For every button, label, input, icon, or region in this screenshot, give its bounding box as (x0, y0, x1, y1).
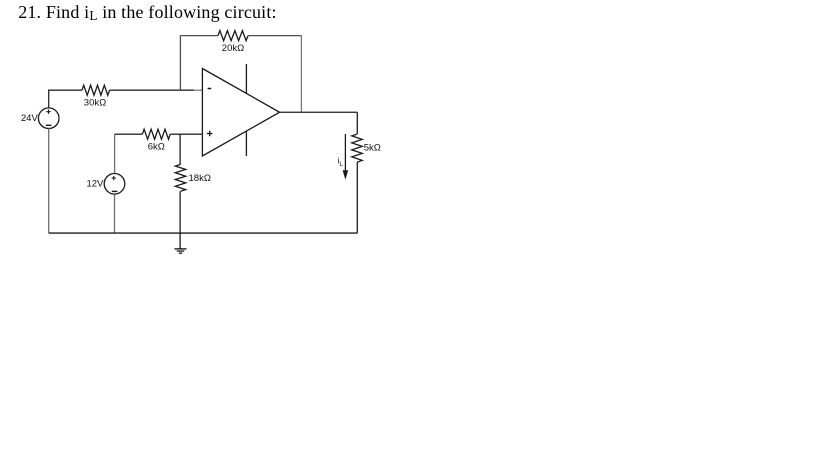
12V plus sign (112, 176, 116, 180)
wire 12V bottom (114, 194, 116, 233)
svg-text:5kΩ: 5kΩ (364, 143, 381, 154)
iL current arrow (343, 134, 349, 180)
resistor R5k (352, 134, 362, 162)
resistor R30k (82, 85, 110, 95)
wire 12V top vertical (114, 134, 116, 173)
svg-text:21. Find iL in the following c: 21. Find iL in the following circuit: (18, 2, 276, 23)
svg-text:6kΩ: 6kΩ (148, 142, 165, 153)
ground symbol (175, 249, 187, 253)
feedback right vertical wire (300, 36, 302, 113)
op-amp U1 triangle (202, 69, 279, 157)
wire 30k to opamp minus input (110, 89, 195, 91)
svg-text:18kΩ: 18kΩ (189, 173, 211, 184)
op-amp top power pin (245, 64, 247, 94)
svg-text:30kΩ: 30kΩ (84, 98, 106, 109)
source 12V circle (104, 174, 125, 195)
feedback left vertical wire (179, 36, 181, 91)
ground stem (179, 233, 181, 249)
wire 24V bottom to ground rail (48, 129, 50, 234)
source 24V circle (38, 108, 59, 129)
24V plus sign (46, 110, 50, 114)
wire junction down to 18k (179, 134, 181, 164)
12V minus sign (112, 190, 118, 192)
feedback top wire right (248, 35, 301, 37)
24V minus sign (46, 124, 52, 126)
op-amp bottom power pin (245, 131, 247, 156)
bottom rail wire (49, 232, 358, 234)
right rail upper wire (356, 112, 358, 134)
op-amp minus label (208, 88, 212, 90)
wire 18k down to bottom rail (179, 191, 181, 233)
feedback top wire left (180, 35, 218, 37)
op-amp plus label (207, 131, 213, 137)
svg-text:20kΩ: 20kΩ (222, 43, 244, 54)
resistor R6k (142, 129, 170, 139)
opamp minus stub (194, 89, 202, 91)
wire 24V top to 30k (49, 90, 82, 108)
resistor R20k (218, 31, 248, 41)
wire 12V to 6k (115, 133, 143, 135)
svg-text:12V: 12V (86, 179, 104, 190)
right rail lower wire (356, 162, 358, 233)
opamp output wire (280, 111, 358, 113)
wire 6k to opamp plus input (170, 133, 203, 135)
resistor R18k (175, 164, 185, 191)
svg-text:24V: 24V (21, 113, 39, 124)
